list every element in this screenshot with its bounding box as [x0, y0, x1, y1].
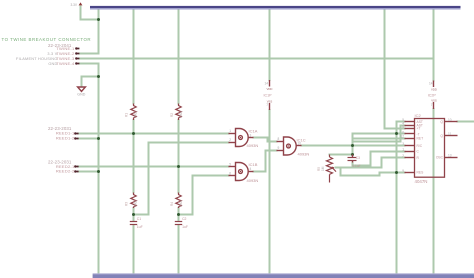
wire AST from column — [397, 122, 405, 274]
wire +T from bus column — [385, 10, 405, 129]
svg-text:390k: 390k — [134, 200, 138, 207]
svg-text:RES: RES — [417, 171, 425, 175]
svg-text:+T: +T — [417, 127, 421, 131]
svg-text:IC1P: IC1P — [264, 94, 273, 98]
node X junction — [351, 144, 354, 147]
wire IC1P column bottom — [269, 110, 271, 274]
svg-text:4: 4 — [250, 167, 252, 171]
svg-text:R4: R4 — [170, 202, 174, 206]
svg-text:11: 11 — [448, 132, 452, 136]
wire -T line — [353, 133, 405, 135]
svg-text:4047N: 4047N — [415, 179, 428, 184]
label net names — [16, 52, 58, 66]
power IC1P pins — [269, 80, 271, 110]
svg-text:3.3 V: 3.3 V — [47, 52, 57, 56]
svg-text:0.1uF: 0.1uF — [352, 164, 360, 168]
svg-text:5: 5 — [229, 163, 231, 167]
wire node X to R5 top — [330, 154, 353, 156]
label gate pin numbers — [229, 129, 301, 176]
node GND junction — [97, 75, 100, 78]
node R3 C1 junction — [132, 213, 135, 216]
node R1 line A junction — [132, 132, 135, 135]
wire line A REED1-1 to IC1A in1 — [78, 133, 229, 135]
wire Q output — [458, 121, 474, 123]
wire GND column — [98, 64, 100, 274]
wire TWINE-4 pin — [80, 63, 99, 65]
node REED1-2 junction — [97, 137, 100, 140]
bus bottom — [93, 273, 474, 274]
svg-text:TO TWINE BREAKOUT CONNECTOR: TO TWINE BREAKOUT CONNECTOR — [2, 37, 92, 42]
wire IC1C out to IC2 R/C — [302, 145, 405, 147]
wire R2 column top — [178, 10, 180, 104]
svg-text:C3: C3 — [356, 156, 360, 160]
wire line C REED2-1 to IC1B in1 — [78, 166, 229, 168]
svg-text:390k: 390k — [134, 111, 138, 118]
label R2 — [170, 111, 183, 118]
wire C1 to bottom bus — [133, 225, 135, 274]
svg-text:C1: C1 — [137, 217, 141, 221]
node -T column junction — [395, 132, 398, 135]
wire REED1-2 to GND column — [78, 138, 99, 140]
wire bus to IC2P VDD — [433, 10, 435, 81]
resistor R3 — [131, 193, 136, 209]
svg-text:10: 10 — [448, 118, 452, 122]
connector TWINE pins — [75, 47, 79, 64]
wire FILAMENT HOUSING rail — [80, 58, 434, 60]
label R4 — [170, 200, 183, 207]
svg-text:4093N: 4093N — [298, 152, 310, 157]
label IC1P VDD VSS — [267, 87, 437, 104]
svg-text:1M: 1M — [321, 166, 325, 171]
svg-text:2: 2 — [402, 154, 404, 158]
wire R5 wiper to R pin — [336, 158, 405, 168]
capacitor C3 — [348, 158, 357, 161]
svg-text:REED2-2: REED2-2 — [56, 169, 75, 174]
svg-text:Q: Q — [440, 134, 443, 138]
svg-text:C2: C2 — [182, 217, 186, 221]
wire /AST jog — [353, 126, 405, 142]
svg-text:R1: R1 — [125, 113, 129, 117]
node RES column junction — [395, 171, 398, 174]
wire GND branch — [82, 77, 99, 87]
IC2 right pin stubs — [445, 122, 458, 158]
svg-text:Q: Q — [440, 120, 443, 124]
node 3.3V junction — [97, 18, 100, 21]
connector REED2 pins — [74, 165, 78, 172]
svg-text:4093N: 4093N — [247, 178, 259, 183]
label R1 — [125, 111, 138, 118]
connector REED1 pins — [74, 132, 78, 139]
wire IC2P column bottom — [433, 109, 435, 274]
node X2 junction — [351, 153, 354, 156]
wire line D IC1B in2 to C2 node — [179, 176, 229, 215]
wire IC1A out to IC1C in1 — [254, 138, 277, 142]
svg-text:4093N: 4093N — [247, 143, 259, 148]
wire IC1B out to IC1C in2 — [254, 151, 277, 172]
svg-text:1: 1 — [229, 129, 231, 133]
label R5 — [317, 166, 325, 171]
trimmer R5 — [327, 155, 337, 183]
svg-text:2: 2 — [229, 138, 231, 142]
svg-text:9: 9 — [402, 169, 404, 173]
wire R3 to C1 — [133, 208, 135, 221]
svg-text:VSS: VSS — [431, 99, 437, 103]
svg-text:GND: GND — [48, 62, 57, 66]
svg-text:8: 8 — [278, 137, 280, 141]
svg-text:REED1-2: REED1-2 — [56, 136, 75, 141]
wire R1 to R3 column — [133, 120, 135, 193]
svg-text:9: 9 — [278, 146, 280, 150]
svg-text:13: 13 — [448, 153, 452, 157]
nand gate IC1B — [229, 163, 254, 181]
svg-text:7: 7 — [266, 103, 268, 107]
wire C3 bottom to C pin — [353, 152, 405, 166]
wire wiper branch to RES — [341, 168, 405, 176]
resistor R1 — [131, 104, 136, 121]
nand gate IC1A — [229, 129, 254, 147]
wire IC1P column top — [269, 10, 271, 81]
capacitor C2 — [175, 222, 182, 225]
resistor R2 — [176, 104, 181, 121]
svg-text:7: 7 — [431, 103, 433, 107]
wire bus to TWINE-2 — [98, 10, 100, 54]
node R2 line C junction — [177, 165, 180, 168]
svg-text:IC2: IC2 — [415, 113, 422, 118]
ground symbol — [78, 87, 86, 91]
wire 3.3V arrow stem and branch to bus column — [81, 7, 99, 20]
capacitor C1 — [130, 222, 137, 225]
label IC2 pin numbers — [400, 118, 404, 173]
svg-text:10: 10 — [298, 142, 302, 146]
svg-text:R3: R3 — [125, 202, 129, 206]
nand gate IC1C — [277, 137, 302, 155]
svg-text:3.3V: 3.3V — [70, 3, 77, 7]
svg-text:RET: RET — [417, 137, 424, 141]
svg-text:FILAMENT HOUSING: FILAMENT HOUSING — [16, 57, 57, 61]
wire R4 to C2 — [178, 208, 180, 221]
svg-text:390k: 390k — [179, 111, 183, 118]
svg-text:8: 8 — [402, 125, 404, 129]
svg-text:390k: 390k — [179, 200, 183, 207]
svg-text:VDD: VDD — [431, 88, 437, 92]
svg-text:GND: GND — [77, 93, 85, 97]
node R4 C2 junction — [177, 213, 180, 216]
svg-text:14: 14 — [429, 82, 433, 86]
svg-text:TWINE-4: TWINE-4 — [56, 61, 75, 66]
wire node X vertical — [352, 134, 354, 155]
label IC2 pin names — [417, 120, 425, 175]
svg-text:VDD: VDD — [267, 87, 273, 91]
svg-text:14: 14 — [264, 82, 268, 86]
IC2 box 4047 — [415, 119, 445, 178]
bus top — [90, 6, 461, 8]
svg-text:IC2P: IC2P — [428, 94, 437, 98]
svg-text:12: 12 — [400, 135, 404, 139]
power IC2P pins — [433, 81, 435, 110]
wire R2 to R4 column — [178, 120, 180, 193]
label R3 — [125, 200, 138, 207]
svg-text:3: 3 — [402, 142, 404, 146]
svg-text:6: 6 — [229, 172, 231, 176]
IC2 left pin stubs — [405, 122, 415, 173]
svg-text:1uF: 1uF — [182, 225, 188, 229]
wire TWINE-2 pin — [80, 53, 99, 55]
wire C2 to bottom bus — [178, 225, 180, 274]
node REED2-2 junction — [97, 170, 100, 173]
power 3.3V arrow — [79, 2, 83, 5]
svg-text:3: 3 — [250, 134, 252, 138]
wire REED2-2 to GND column — [78, 171, 99, 173]
wire RET line — [353, 138, 405, 140]
resistor R4 — [176, 193, 181, 209]
svg-text:1uF: 1uF — [137, 225, 143, 229]
wire R1 column top — [133, 10, 135, 104]
svg-text:R2: R2 — [170, 113, 174, 117]
svg-text:R/C: R/C — [417, 144, 423, 148]
svg-text:1: 1 — [402, 147, 404, 151]
wire line B IC1A in2 to C1 node — [134, 143, 229, 215]
label TWINE pins — [56, 46, 75, 66]
svg-text:OSC: OSC — [436, 155, 444, 159]
